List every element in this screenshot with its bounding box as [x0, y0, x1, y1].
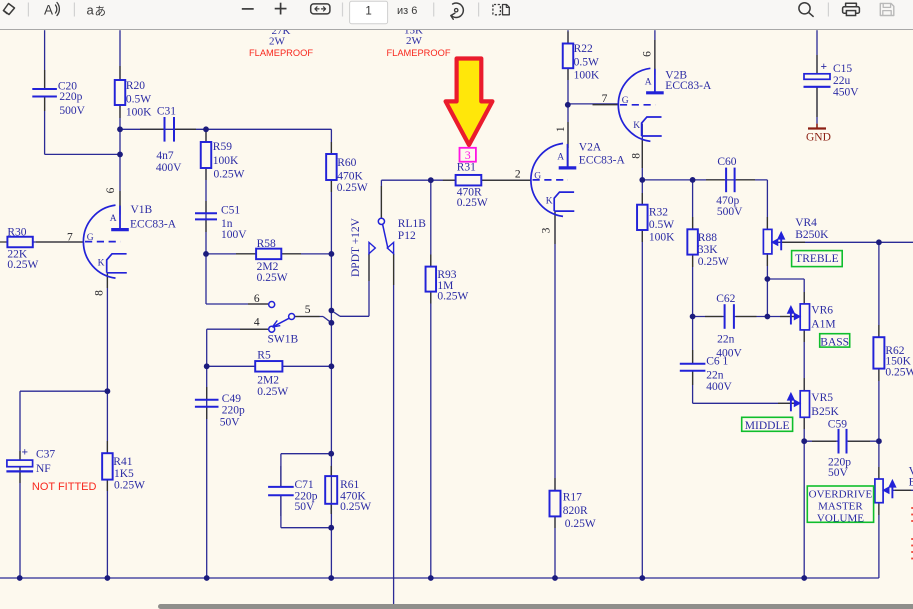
- svg-text:6: 6: [105, 187, 117, 193]
- svg-text:R30: R30: [7, 226, 26, 238]
- svg-text:0.25W: 0.25W: [257, 272, 288, 284]
- svg-text:R41: R41: [113, 456, 132, 468]
- svg-text:G: G: [622, 96, 629, 106]
- svg-text:MIDDLE: MIDDLE: [745, 420, 790, 432]
- svg-text:A: A: [557, 153, 564, 163]
- svg-text:ECC83-A: ECC83-A: [665, 80, 712, 92]
- svg-text:R17: R17: [563, 492, 582, 504]
- svg-text:C71: C71: [295, 479, 314, 491]
- svg-text:R88: R88: [698, 232, 717, 244]
- svg-text:0.25W: 0.25W: [437, 290, 468, 302]
- svg-text:500V: 500V: [59, 105, 85, 117]
- svg-text:2M2: 2M2: [257, 374, 279, 386]
- svg-text:0.25W: 0.25W: [7, 259, 38, 271]
- svg-text:2W: 2W: [269, 36, 286, 48]
- svg-text:R31: R31: [457, 161, 476, 173]
- svg-text:+: +: [821, 61, 828, 73]
- svg-text:A: A: [44, 3, 53, 18]
- svg-text:2: 2: [515, 168, 521, 180]
- svg-text:C59: C59: [828, 418, 847, 430]
- svg-text:6: 6: [254, 293, 260, 305]
- svg-text:100K: 100K: [574, 70, 600, 82]
- svg-text:C37: C37: [36, 449, 55, 461]
- svg-text:0.25W: 0.25W: [885, 366, 913, 378]
- svg-text:あ: あ: [95, 5, 107, 18]
- svg-text:2W: 2W: [406, 35, 423, 47]
- svg-text:FLAMEPROOF: FLAMEPROOF: [249, 48, 313, 58]
- svg-text:6: 6: [642, 51, 654, 57]
- svg-text:OVERDRIVE: OVERDRIVE: [809, 489, 873, 501]
- svg-text:R59: R59: [213, 141, 232, 153]
- svg-text:C15: C15: [833, 63, 852, 75]
- svg-text:ECC83-A: ECC83-A: [579, 155, 626, 167]
- svg-text:1K5: 1K5: [114, 468, 134, 480]
- svg-text:R58: R58: [257, 238, 276, 250]
- svg-text:0.25W: 0.25W: [457, 197, 488, 209]
- svg-text:R93: R93: [437, 269, 456, 281]
- svg-text:220p: 220p: [222, 405, 245, 417]
- svg-text:0.25W: 0.25W: [698, 256, 729, 268]
- svg-text:P12: P12: [398, 230, 416, 242]
- svg-text:400V: 400V: [706, 381, 732, 393]
- svg-text:C31: C31: [157, 106, 176, 118]
- svg-text:MASTER: MASTER: [818, 501, 863, 513]
- svg-text:0.5W: 0.5W: [649, 219, 674, 231]
- svg-text:A1M: A1M: [811, 319, 835, 331]
- svg-text:G: G: [534, 172, 541, 182]
- svg-text:TREBLE: TREBLE: [795, 253, 838, 265]
- svg-text:400V: 400V: [156, 162, 182, 174]
- svg-text:1: 1: [555, 126, 567, 132]
- svg-text:4: 4: [254, 317, 260, 329]
- svg-text:470K: 470K: [337, 171, 363, 183]
- svg-text:C60: C60: [717, 156, 736, 168]
- svg-text:C51: C51: [221, 204, 240, 216]
- svg-text:R22: R22: [574, 43, 593, 55]
- svg-text:R61: R61: [340, 479, 359, 491]
- svg-text:K: K: [98, 258, 105, 268]
- svg-text:5: 5: [305, 304, 311, 316]
- svg-text:0.5W: 0.5W: [574, 57, 599, 69]
- svg-text:GND: GND: [806, 132, 831, 144]
- svg-text:C62: C62: [716, 293, 735, 305]
- svg-text:4n7: 4n7: [156, 150, 174, 162]
- svg-text:R5: R5: [257, 350, 271, 362]
- svg-text:22n: 22n: [717, 333, 735, 345]
- svg-text:3: 3: [465, 148, 471, 162]
- svg-text:RL1B: RL1B: [398, 218, 426, 230]
- svg-text:VR: VR: [909, 465, 913, 477]
- svg-text:ECC83-A: ECC83-A: [130, 219, 177, 231]
- svg-text:0.25W: 0.25W: [214, 168, 245, 180]
- svg-text:100V: 100V: [221, 229, 247, 241]
- svg-text:B25K: B25K: [811, 406, 839, 418]
- svg-text:V1B: V1B: [131, 204, 153, 216]
- svg-text:R32: R32: [649, 207, 668, 219]
- svg-text:из 6: из 6: [397, 5, 417, 17]
- svg-text:VR6: VR6: [811, 305, 833, 317]
- svg-text:DPDT +12V: DPDT +12V: [350, 217, 362, 277]
- svg-text:0.25W: 0.25W: [114, 480, 145, 492]
- svg-text:0.5W: 0.5W: [126, 94, 151, 106]
- svg-text:22u: 22u: [833, 75, 851, 87]
- svg-text:500V: 500V: [717, 206, 743, 218]
- svg-text:7: 7: [67, 232, 73, 244]
- svg-text:0.25W: 0.25W: [340, 501, 371, 513]
- svg-text:K: K: [633, 121, 640, 131]
- svg-text:NOT FITTED: NOT FITTED: [32, 481, 97, 493]
- svg-text:R20: R20: [126, 80, 145, 92]
- svg-text:100K: 100K: [126, 107, 152, 119]
- svg-text:22n: 22n: [706, 369, 724, 381]
- svg-text:50V: 50V: [220, 417, 241, 429]
- svg-text:FLAMEPROOF: FLAMEPROOF: [386, 48, 450, 58]
- svg-text:3: 3: [541, 227, 553, 233]
- svg-text:A: A: [110, 214, 117, 224]
- svg-text:820R: 820R: [563, 505, 588, 517]
- svg-text:K: K: [546, 197, 553, 207]
- svg-text:8: 8: [631, 153, 643, 159]
- svg-text:R60: R60: [337, 157, 356, 169]
- svg-text:100K: 100K: [649, 231, 675, 243]
- svg-text:450V: 450V: [833, 87, 859, 99]
- svg-text:7: 7: [602, 93, 608, 105]
- svg-text:V2A: V2A: [579, 142, 602, 154]
- svg-text:C49: C49: [222, 393, 241, 405]
- svg-text:1: 1: [365, 5, 371, 17]
- svg-text:B2: B2: [909, 477, 913, 489]
- svg-text:B250K: B250K: [795, 229, 829, 241]
- svg-text:50V: 50V: [295, 501, 316, 513]
- svg-text:50V: 50V: [828, 467, 849, 479]
- svg-text:+: +: [22, 447, 29, 459]
- svg-text:VR5: VR5: [811, 392, 833, 404]
- svg-text:220p: 220p: [59, 91, 82, 103]
- svg-text:SW1B: SW1B: [268, 334, 299, 346]
- svg-text:VR4: VR4: [795, 217, 817, 229]
- svg-text:0.25W: 0.25W: [337, 182, 368, 194]
- svg-text:0.25W: 0.25W: [257, 386, 288, 398]
- svg-text:a: a: [87, 3, 95, 18]
- svg-text:C6 1: C6 1: [706, 355, 728, 367]
- svg-text:100K: 100K: [213, 155, 239, 167]
- svg-text:NF: NF: [36, 463, 51, 475]
- svg-text:8: 8: [94, 290, 106, 296]
- svg-text:33K: 33K: [698, 244, 719, 256]
- svg-text:0.25W: 0.25W: [565, 518, 596, 530]
- svg-text:BASS: BASS: [820, 336, 849, 348]
- svg-text:A: A: [645, 78, 652, 88]
- svg-text:VOLUME: VOLUME: [817, 512, 864, 524]
- svg-text:G: G: [87, 233, 94, 243]
